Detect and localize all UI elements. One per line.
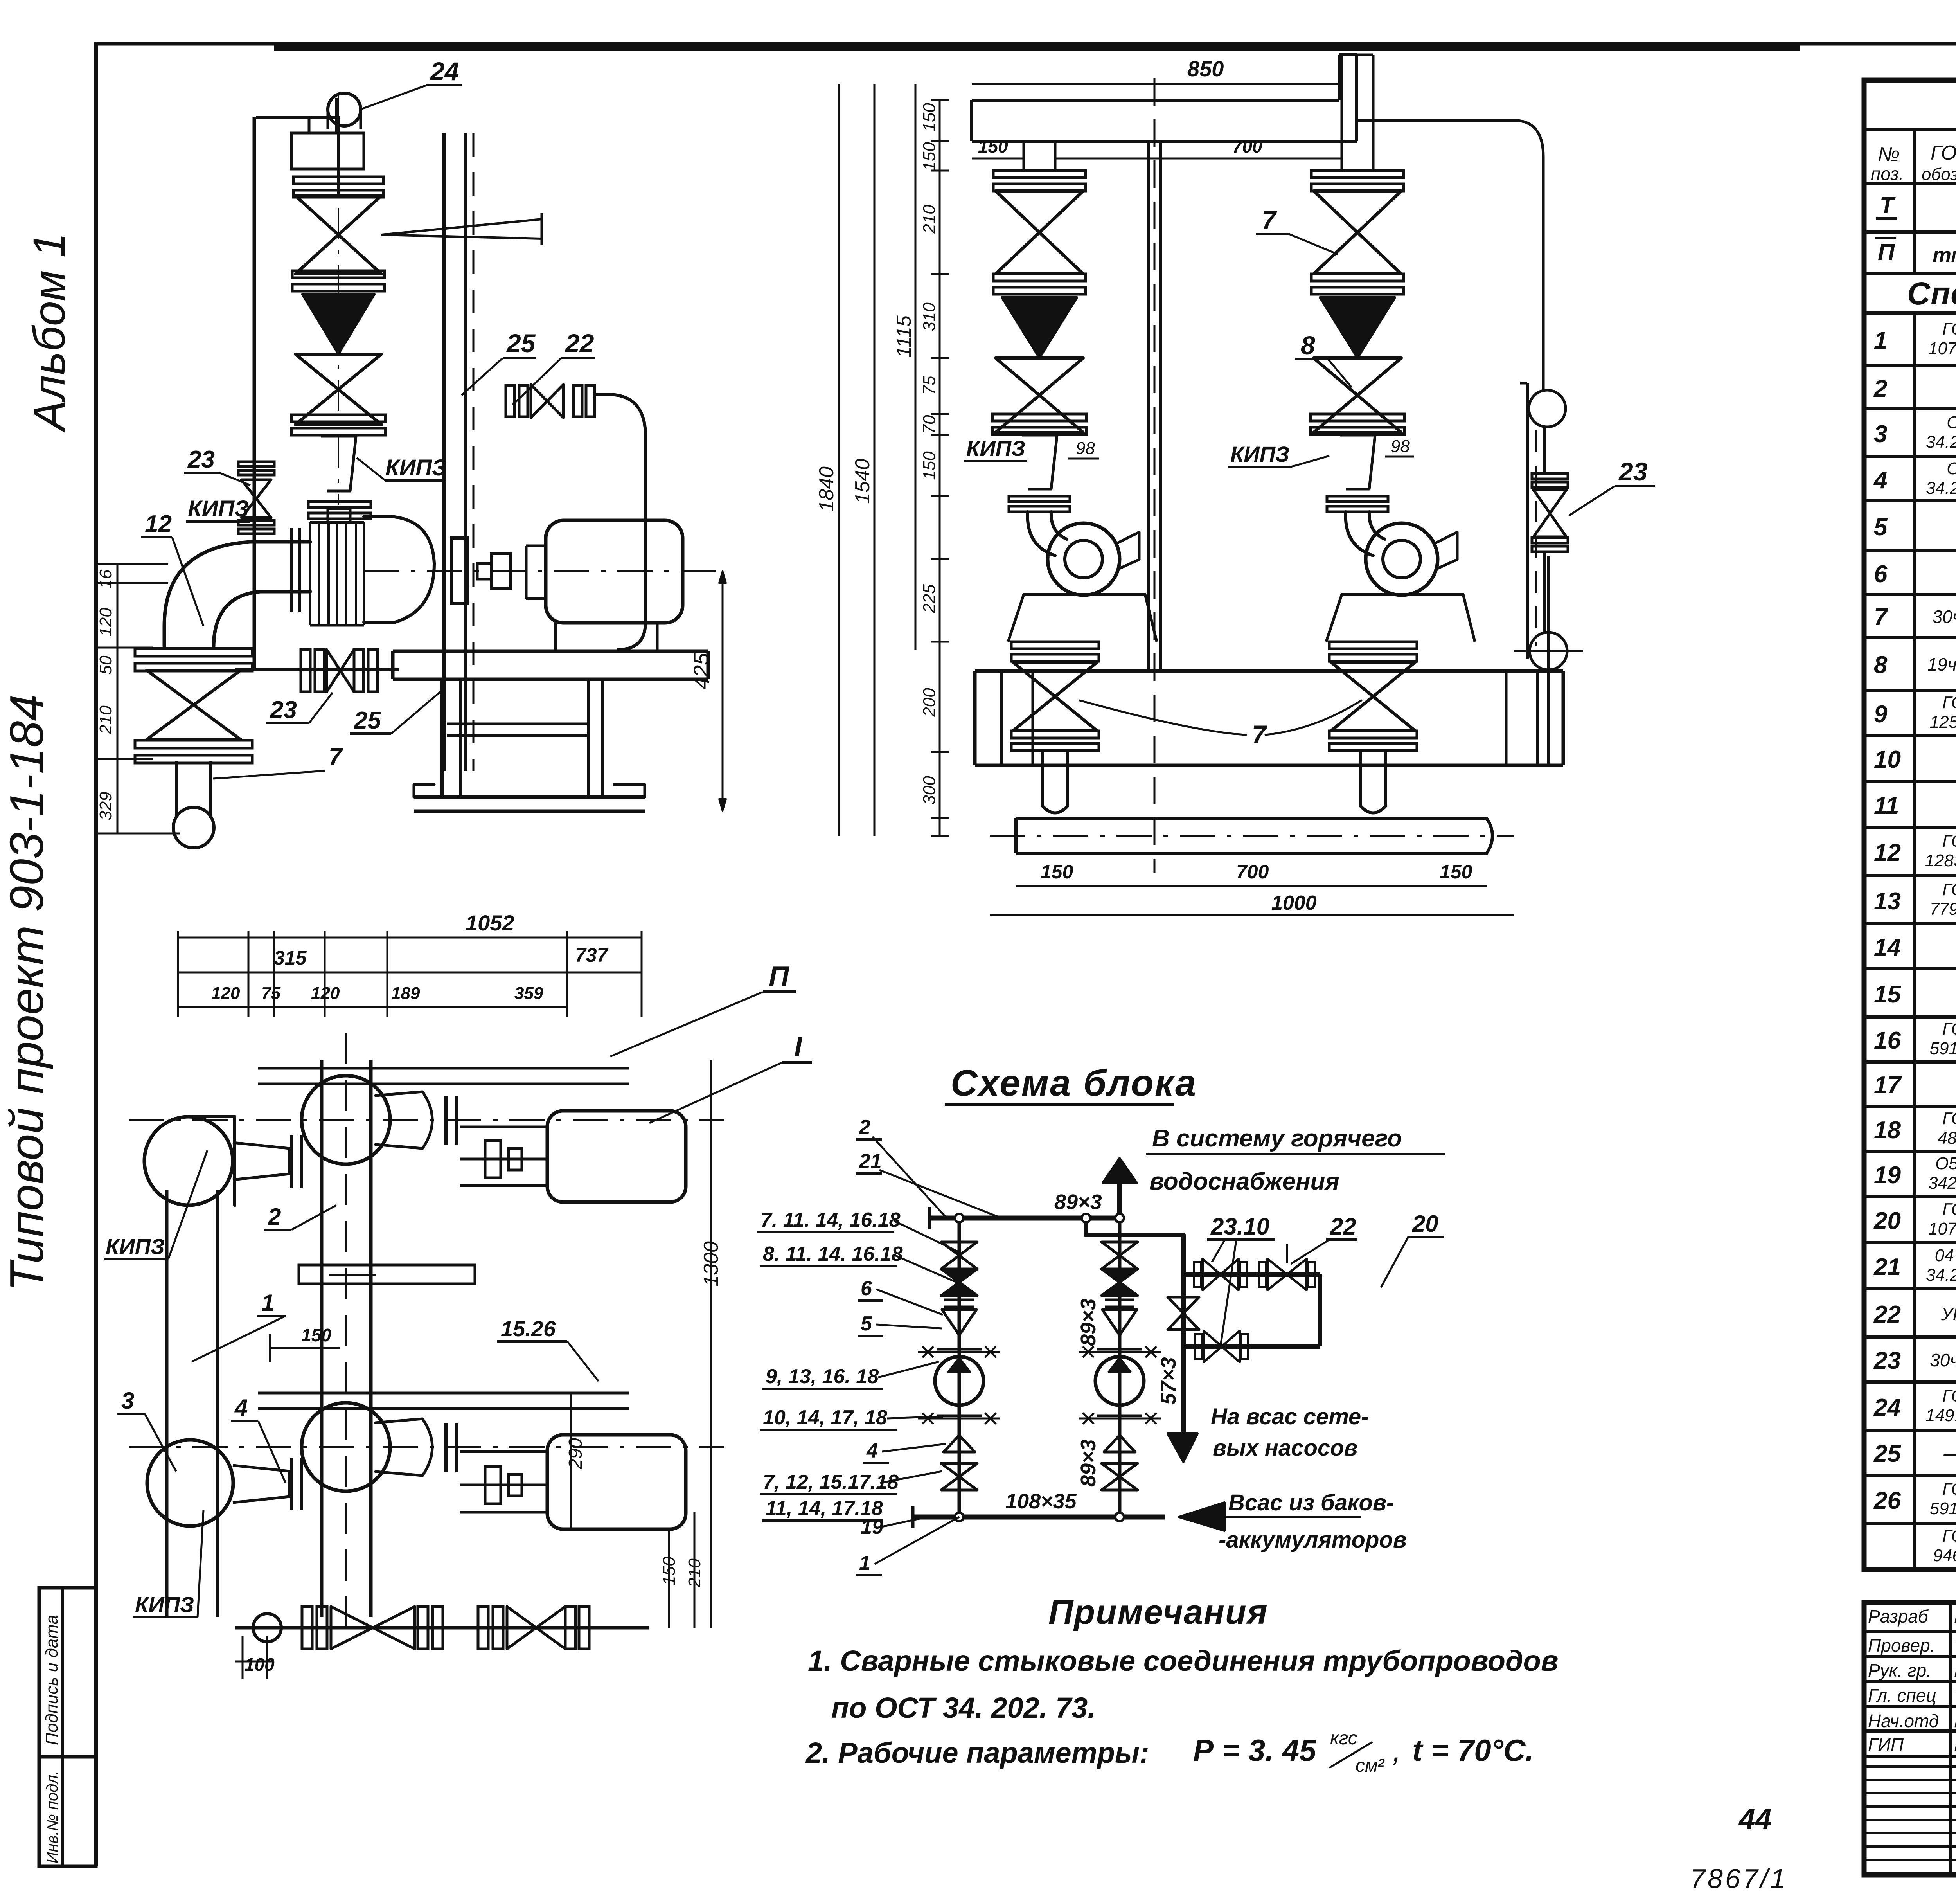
svg-text:Гл. спец: Гл. спец [1868, 1685, 1936, 1706]
svg-text:Шерман: Шерман [1954, 1660, 1956, 1681]
drawing B left flange 3 [992, 414, 1086, 421]
drawing A black funnel check [302, 294, 374, 354]
drawing A suction pipe bottom circle [173, 807, 214, 848]
drawing A horizontal pipe at base [235, 668, 399, 671]
svg-text:30ч 6бр.: 30ч 6бр. [1930, 1350, 1956, 1370]
drawing A gate valve top [295, 196, 381, 274]
svg-text:57×3: 57×3 [1157, 1357, 1180, 1405]
drawing C upper shaft and coupling [460, 1158, 547, 1161]
drawing B left discharge lower flange [1011, 731, 1099, 738]
svg-text:водоснабжения: водоснабжения [1149, 1168, 1339, 1195]
drawing B right inlet elbow [1346, 512, 1373, 556]
svg-text:Карпенко: Карпенко [1954, 1711, 1956, 1731]
svg-text:481-71: 481-71 [1938, 1128, 1956, 1148]
svg-text:16: 16 [1874, 1027, 1901, 1054]
drawing A coupling [451, 538, 468, 604]
svg-text:Подпись и дата: Подпись и дата [42, 1615, 61, 1745]
svg-text:20: 20 [1412, 1211, 1438, 1237]
svg-text:ГОСТ: ГОСТ [1942, 1386, 1956, 1406]
drawing C lower inlet cone [233, 1465, 289, 1503]
drawing B right column flange 1 [1311, 171, 1404, 178]
spec table outer border [1864, 80, 1956, 1569]
svg-text:по ОСТ 34. 202. 73.: по ОСТ 34. 202. 73. [831, 1692, 1096, 1724]
svg-text:10, 14, 17, 18: 10, 14, 17, 18 [763, 1406, 887, 1429]
svg-text:тм -38: тм -38 [1933, 243, 1956, 267]
drawing B left reducer [1022, 435, 1057, 489]
svg-text:8: 8 [1874, 651, 1888, 678]
svg-text:ГОСТ: ГОСТ [1942, 1109, 1956, 1128]
svg-text:Терехов: Терехов [1954, 1635, 1956, 1656]
svg-text:1300: 1300 [700, 1241, 723, 1287]
svg-text:9: 9 [1874, 701, 1888, 728]
drawing B left dim chains [838, 84, 840, 836]
svg-text:98: 98 [1076, 439, 1095, 458]
drawing C left suction pipe vertical [165, 1190, 169, 1617]
drawing B left discharge valve 7 [1013, 662, 1097, 731]
drawing A small flange 4 [308, 502, 371, 507]
drawing C upper motor [547, 1111, 686, 1202]
svg-text:Т: Т [1880, 192, 1896, 218]
svg-text:23: 23 [1873, 1347, 1901, 1374]
svg-text:23: 23 [270, 696, 297, 723]
svg-text:30ч.6бр: 30ч.6бр [1933, 606, 1956, 627]
drawing B left drop pipe [1041, 752, 1044, 783]
drawing C upper flange bars [290, 1135, 293, 1188]
svg-text:,: , [1393, 1733, 1401, 1767]
svg-text:14911-69*: 14911-69* [1925, 1406, 1956, 1425]
svg-text:189: 189 [391, 984, 420, 1003]
svg-text:ГОСТ: ГОСТ [1942, 1479, 1956, 1499]
svg-text:7: 7 [1262, 205, 1277, 234]
svg-text:50: 50 [96, 655, 115, 675]
drawing A pump casing [364, 516, 434, 622]
drawing B center column [1147, 141, 1150, 671]
svg-text:24: 24 [430, 57, 459, 86]
drawing A motor [546, 520, 683, 623]
svg-text:89×3: 89×3 [1077, 1298, 1100, 1346]
schema down arrow to network pumps [1181, 1346, 1186, 1434]
margin box podpis i data [39, 1588, 96, 1866]
drawing B left pump volute [1048, 523, 1120, 595]
drawing A discharge valve row [506, 385, 514, 417]
svg-text:225: 225 [920, 584, 939, 614]
drawing B right gate valve 2 [1314, 358, 1401, 432]
svg-text:150: 150 [301, 1325, 331, 1345]
spec table horizontal rules [1864, 128, 1956, 131]
svg-text:75: 75 [261, 984, 280, 1003]
drawing C dim 100 [242, 1636, 244, 1679]
svg-text:22: 22 [1330, 1213, 1356, 1240]
svg-text:15: 15 [1874, 981, 1901, 1008]
drawing A reducer cone [321, 436, 356, 491]
drawing A flange 3 [291, 415, 385, 422]
svg-text:120: 120 [96, 608, 115, 637]
svg-text:14: 14 [1874, 934, 1901, 961]
svg-text:-аккумуляторов: -аккумуляторов [1219, 1527, 1407, 1553]
svg-text:13: 13 [1874, 888, 1901, 915]
svg-text:1: 1 [1874, 327, 1887, 354]
svg-text:Рук. гр.: Рук. гр. [1868, 1660, 1931, 1681]
drawing A top flange pair [293, 177, 383, 184]
svg-text:КИПЗ: КИПЗ [135, 1592, 194, 1617]
svg-text:5915-70*: 5915-70* [1930, 1039, 1956, 1058]
svg-text:34.204-73: 34.204-73 [1926, 432, 1956, 452]
schema top arrow to hot water system [1103, 1158, 1137, 1183]
svg-text:23: 23 [1618, 457, 1647, 486]
drawing A bracket under support [291, 133, 364, 169]
drawing B right riser valve 23 [1532, 473, 1568, 479]
svg-text:6: 6 [861, 1277, 872, 1300]
svg-text:П: П [769, 961, 790, 992]
svg-text:150: 150 [1440, 861, 1472, 883]
svg-text:98: 98 [1391, 437, 1410, 456]
svg-text:1840: 1840 [815, 466, 838, 512]
svg-text:КИПЗ: КИПЗ [966, 436, 1025, 461]
drawing B riser right [1341, 55, 1343, 171]
svg-text:Разраб: Разраб [1868, 1606, 1929, 1627]
svg-text:t = 70°С.: t = 70°С. [1412, 1733, 1534, 1767]
svg-text:300: 300 [920, 776, 939, 805]
schema branch pipe right [1086, 1218, 1183, 1434]
drawing B top header pipe [972, 99, 1339, 102]
drawing A inlet flange plates [290, 528, 293, 612]
svg-text:108×35: 108×35 [1005, 1490, 1077, 1513]
svg-text:ГОСТ: ГОСТ [1942, 1526, 1956, 1546]
drawing B right pump volute [1366, 523, 1438, 595]
svg-text:2: 2 [268, 1204, 281, 1230]
drawing B header right drop [1338, 55, 1341, 100]
svg-text:16: 16 [96, 569, 115, 588]
drawing B right pump pedestal [1326, 594, 1475, 642]
drawing B right discharge valve 7 [1331, 662, 1415, 731]
svg-text:21: 21 [859, 1150, 882, 1173]
drawing B left pump pedestal [1008, 594, 1157, 642]
svg-text:10704-76: 10704-76 [1928, 1219, 1956, 1238]
drawing B right black funnel [1320, 297, 1395, 358]
drawing B left column flange 1 [993, 171, 1086, 178]
svg-text:19ч.16бр: 19ч.16бр [1927, 654, 1956, 675]
drawing A pedestal I-beam [440, 679, 444, 797]
svg-text:ГОСТ: ГОСТ [1931, 142, 1956, 164]
sheet frame top border [96, 42, 1956, 46]
drawing A valve stem to right [381, 219, 542, 239]
svg-text:На всас сете-: На всас сете- [1211, 1404, 1369, 1429]
drawing B bottom suction header [1016, 817, 1487, 820]
svg-text:7. 11. 14, 16.18: 7. 11. 14, 16.18 [760, 1209, 901, 1231]
svg-text:24: 24 [1873, 1394, 1901, 1421]
drawing C dim 1052 [178, 937, 642, 939]
svg-text:9, 13, 16. 18: 9, 13, 16. 18 [766, 1365, 879, 1388]
svg-text:Типовой проект 903-1-184: Типовой проект 903-1-184 [0, 695, 53, 1291]
schema vsas iz bakov [1179, 1503, 1224, 1531]
drawing C central pipe vertical [320, 1060, 324, 1617]
svg-text:34.209-73: 34.209-73 [1926, 479, 1956, 498]
svg-text:89×3: 89×3 [1054, 1190, 1102, 1214]
svg-text:1052: 1052 [466, 911, 514, 935]
svg-text:10704-76: 10704-76 [1928, 339, 1956, 358]
drawing B right riser clamp circle bottom [1530, 632, 1567, 670]
drawing C dims 315 737 [178, 972, 325, 974]
svg-text:поз.: поз. [1871, 164, 1904, 184]
svg-text:кгс: кгс [1330, 1728, 1357, 1749]
schema valve chain branch 1 [958, 1218, 961, 1517]
drawing A dim 425 [722, 571, 724, 811]
drawing B left gate valve 1 [996, 191, 1083, 274]
drawing B left flange 2 [993, 274, 1086, 281]
svg-text:Схема блока: Схема блока [951, 1062, 1197, 1104]
drawing A gate valve 2 [295, 354, 381, 425]
svg-text:7867/1: 7867/1 [1690, 1863, 1788, 1894]
drawing A valve 23 horizontal [301, 650, 310, 692]
svg-text:120: 120 [211, 984, 240, 1003]
title block signature rows [1864, 1630, 1956, 1633]
svg-text:4: 4 [1873, 467, 1887, 494]
drawing B dim 850 [972, 83, 1339, 85]
drawing A valve 23 on column [241, 480, 271, 518]
drawing A pipe support top circle item 24 [328, 93, 361, 126]
drawing B right gate valve 1 [1314, 191, 1401, 274]
drawing B right drop pipe [1359, 752, 1362, 783]
svg-text:Терехов: Терехов [1954, 1685, 1956, 1706]
drawing B riser left [1023, 141, 1025, 171]
svg-text:обознач.: обознач. [1922, 165, 1956, 184]
svg-text:12: 12 [145, 511, 172, 538]
drawing C right dims [710, 1060, 712, 1628]
svg-text:23.10: 23.10 [1210, 1213, 1269, 1240]
drawing C lower pump volute [302, 1403, 390, 1491]
drawing A suction flange pair [135, 648, 252, 656]
drawing B right reducer [1340, 435, 1375, 489]
drawing C lower frame rails [258, 1392, 629, 1395]
svg-text:89×3: 89×3 [1077, 1439, 1100, 1487]
svg-text:Инв.№ подл.: Инв.№ подл. [44, 1771, 61, 1863]
drawing C upper pump body [376, 1092, 432, 1148]
svg-text:20: 20 [1873, 1208, 1901, 1235]
svg-text:ГОСТ: ГОСТ [1942, 1200, 1956, 1219]
svg-text:34233-73: 34233-73 [1928, 1173, 1956, 1193]
svg-text:15.26: 15.26 [501, 1316, 556, 1341]
drawing B right discharge flange [1329, 642, 1417, 649]
svg-text:26: 26 [1873, 1487, 1901, 1514]
drawing B right support post [1526, 383, 1529, 659]
svg-text:ГОСТ: ГОСТ [1942, 1019, 1956, 1038]
drawing A suction valve 7 [147, 670, 241, 740]
svg-text:Всас из баков-: Всас из баков- [1228, 1490, 1394, 1515]
drawing B left black funnel [1002, 297, 1077, 358]
svg-text:25: 25 [506, 329, 536, 358]
drawing A flange under valve [292, 271, 385, 278]
svg-text:700: 700 [1236, 861, 1269, 883]
drawing B right small flange [1327, 496, 1388, 502]
svg-text:34.233-73: 34.233-73 [1926, 1265, 1956, 1285]
svg-text:I: I [794, 1031, 803, 1063]
svg-text:Провер.: Провер. [1868, 1635, 1935, 1656]
drawing C upper suction elbow circle [144, 1117, 233, 1205]
svg-text:5915-70*: 5915-70* [1930, 1499, 1956, 1518]
svg-text:В систему горячего: В систему горячего [1152, 1125, 1402, 1152]
svg-text:210: 210 [920, 205, 939, 234]
drawing A baseplate [393, 650, 708, 653]
svg-text:100: 100 [244, 1654, 275, 1675]
svg-text:2: 2 [859, 1116, 870, 1139]
drawing A suction elbow [164, 542, 310, 646]
svg-text:1000: 1000 [1271, 892, 1317, 914]
svg-text:7: 7 [1874, 604, 1888, 631]
svg-text:2. Рабочие параметры:: 2. Рабочие параметры: [805, 1737, 1149, 1769]
drawing B left small flange [1009, 496, 1070, 502]
svg-text:11: 11 [1874, 792, 1899, 819]
svg-text:8: 8 [1301, 331, 1315, 360]
svg-text:1255-67*: 1255-67* [1930, 713, 1956, 732]
svg-text:10: 10 [1874, 746, 1901, 773]
svg-text:359: 359 [514, 984, 543, 1003]
svg-text:Цыгрик: Цыгрик [1954, 1735, 1956, 1755]
svg-text:4: 4 [234, 1395, 248, 1421]
svg-text:5: 5 [1874, 514, 1888, 541]
drawing C mid cross member [299, 1265, 475, 1284]
svg-text:6: 6 [1874, 561, 1888, 588]
svg-text:150: 150 [1041, 861, 1073, 883]
svg-text:850: 850 [1187, 56, 1224, 81]
svg-text:12830-67*: 12830-67* [1925, 851, 1956, 870]
svg-text:ГОСТ: ГОСТ [1942, 880, 1956, 899]
svg-text:КИПЗ: КИПЗ [1230, 442, 1289, 466]
drawing A left dims [117, 564, 119, 833]
drawing C upper pump volute [302, 1076, 390, 1164]
svg-text:17: 17 [1874, 1072, 1902, 1099]
drawing C bottom valves row [235, 1626, 649, 1630]
svg-text:ГОСТ: ГОСТ [1942, 319, 1956, 338]
drawing B left gate valve 2 [996, 358, 1083, 432]
drawing A valve column centerline [338, 94, 339, 505]
svg-text:1540: 1540 [851, 459, 874, 504]
svg-text:22: 22 [565, 329, 594, 358]
svg-text:25: 25 [354, 707, 381, 734]
drawing C lower shaft and coupling [460, 1484, 547, 1486]
schema top pipe [929, 1216, 1121, 1221]
drawing B left inlet elbow [1028, 512, 1055, 556]
drawing A motor stand [556, 623, 657, 651]
svg-text:200: 200 [920, 688, 939, 717]
schema right drop valve [1168, 1297, 1199, 1330]
drawing C lower pump body [376, 1419, 432, 1476]
drawing B right discharge lower flange [1329, 731, 1417, 738]
drawing C dims row3 [178, 1006, 567, 1008]
svg-text:150: 150 [978, 136, 1008, 157]
svg-text:КИПЗ: КИПЗ [106, 1234, 165, 1259]
drawing B left discharge flange [1011, 642, 1099, 649]
svg-text:310: 310 [920, 302, 939, 331]
svg-text:ГИП: ГИП [1868, 1735, 1904, 1755]
title block signature columns [1949, 1602, 1952, 1875]
svg-text:70: 70 [920, 415, 939, 434]
svg-text:Грицаенко: Грицаенко [1954, 1606, 1956, 1627]
svg-text:44: 44 [1738, 1803, 1771, 1836]
svg-text:75: 75 [920, 376, 939, 395]
svg-text:см²: см² [1356, 1755, 1385, 1776]
svg-text:290: 290 [565, 1438, 586, 1470]
svg-text:150: 150 [920, 451, 939, 480]
svg-text:425: 425 [689, 653, 714, 689]
svg-text:КИПЗ: КИПЗ [385, 455, 446, 480]
svg-text:4: 4 [866, 1440, 878, 1462]
svg-text:Спецификация трубопроводов и: Спецификация трубопроводов и арматуры [1907, 276, 1956, 311]
svg-text:3: 3 [121, 1388, 134, 1414]
svg-text:Р = 3. 45: Р = 3. 45 [1193, 1733, 1317, 1767]
svg-text:1. Сварные стыковые соедин: 1. Сварные стыковые соединения трубопров… [808, 1645, 1559, 1677]
spec table vertical rules [1913, 183, 1916, 274]
svg-text:150: 150 [920, 142, 939, 171]
drawing A suction pipe down [175, 761, 178, 818]
svg-text:УРРД: УРРД [1941, 1304, 1956, 1324]
drawing A suction lower flange [135, 740, 252, 748]
svg-text:25: 25 [1873, 1440, 1901, 1467]
title block outer [1864, 1602, 1956, 1875]
schema junction dots [955, 1214, 964, 1222]
drawing A centerline column [253, 117, 256, 670]
svg-text:23: 23 [187, 446, 215, 473]
drawing A pump inlet stack [309, 522, 311, 625]
sheet frame left border [94, 42, 98, 1866]
schema leader lines [894, 1221, 959, 1252]
drawing C lower suction elbow circle [147, 1440, 233, 1526]
svg-text:19: 19 [1874, 1162, 1901, 1189]
svg-text:П: П [1878, 239, 1895, 265]
schema right valve row upper [1183, 1272, 1320, 1277]
svg-text:Нач.отд: Нач.отд [1868, 1711, 1939, 1731]
svg-text:5: 5 [861, 1312, 872, 1335]
svg-text:737: 737 [575, 944, 609, 966]
svg-text:ГОСТ: ГОСТ [1942, 693, 1956, 712]
svg-text:ГОСТ: ГОСТ [1942, 831, 1956, 851]
drawing B right flange 3 [1311, 414, 1404, 421]
svg-text:7798-70*: 7798-70* [1930, 900, 1956, 919]
drawing B bottom dims [1016, 885, 1487, 887]
svg-text:1: 1 [261, 1290, 274, 1316]
svg-text:7, 12, 15.17.18: 7, 12, 15.17.18 [763, 1471, 899, 1494]
svg-text:Альбом 1: Альбом 1 [24, 233, 74, 433]
svg-text:№: № [1878, 143, 1900, 166]
drawing C lower motor [547, 1435, 686, 1529]
drawing A support column [442, 133, 446, 771]
svg-text:О5ОСТ: О5ОСТ [1935, 1154, 1956, 1173]
svg-text:ОСТ: ОСТ [1947, 413, 1956, 432]
drawing C upper frame rails [258, 1067, 629, 1070]
svg-text:8. 11. 14. 16.18: 8. 11. 14. 16.18 [763, 1243, 903, 1265]
svg-text:18: 18 [1874, 1117, 1901, 1144]
svg-text:Примечания: Примечания [1048, 1593, 1268, 1631]
drawing C upper inlet cone [233, 1143, 289, 1180]
svg-text:1: 1 [859, 1552, 870, 1575]
drawing B support frame band [975, 669, 1563, 673]
svg-text:150: 150 [920, 103, 939, 132]
svg-text:315: 315 [274, 947, 307, 969]
svg-text:ОСТ: ОСТ [1947, 459, 1956, 478]
schema valve chain branch 2 [1118, 1218, 1122, 1517]
drawing A shaft centerline [364, 570, 724, 572]
svg-text:22: 22 [1873, 1301, 1901, 1328]
svg-text:1115: 1115 [893, 315, 915, 358]
svg-text:3: 3 [1874, 421, 1887, 448]
svg-text:329: 329 [96, 792, 115, 820]
svg-text:12: 12 [1874, 839, 1901, 866]
drawing B thin discharge line to right [1357, 121, 1543, 390]
svg-text:210: 210 [96, 705, 115, 735]
svg-text:—„—: —„— [1943, 1443, 1956, 1463]
svg-text:КИПЗ: КИПЗ [188, 496, 249, 522]
drawing B right riser clamp circle top [1529, 390, 1566, 427]
schema bottom pipe [913, 1515, 1165, 1520]
